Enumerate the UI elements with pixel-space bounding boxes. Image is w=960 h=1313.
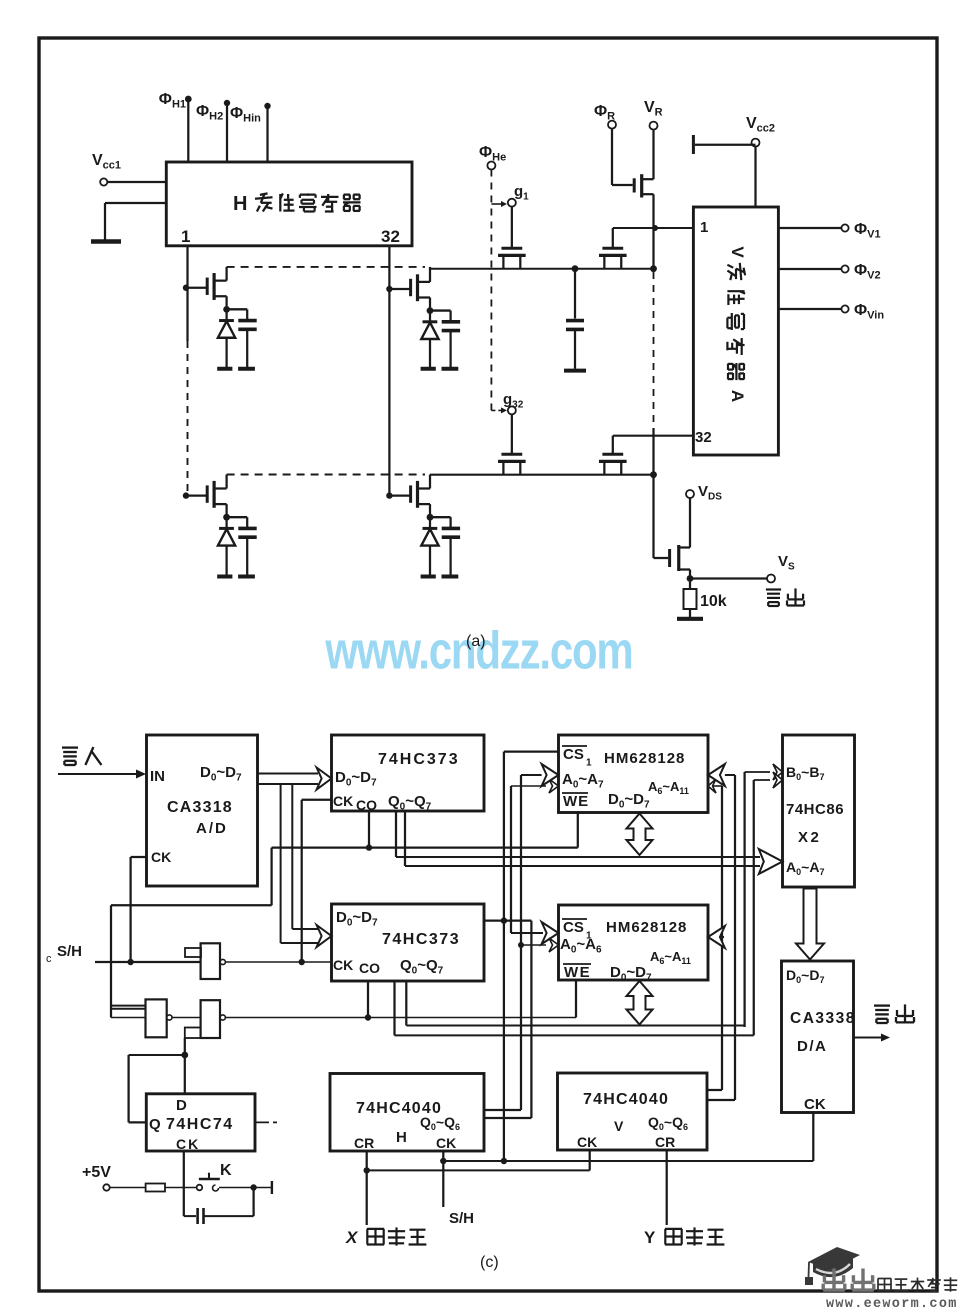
svg-text:+5V: +5V	[82, 1164, 111, 1181]
svg-text:X: X	[345, 1228, 359, 1247]
svg-text:S/H: S/H	[57, 943, 82, 960]
svg-text:CK: CK	[151, 849, 171, 865]
svg-text:CA3318: CA3318	[167, 799, 233, 816]
svg-text:CA3338: CA3338	[790, 1010, 856, 1027]
svg-text:74HC4040: 74HC4040	[583, 1091, 669, 1108]
svg-text:74HC86: 74HC86	[786, 801, 844, 818]
svg-text:CO: CO	[356, 797, 377, 813]
svg-text:A/D: A/D	[196, 820, 228, 837]
svg-text:A0~A6: A0~A6	[560, 936, 602, 955]
svg-text:S/H: S/H	[449, 1210, 474, 1227]
svg-text:A0~A7: A0~A7	[562, 771, 604, 790]
svg-text:D0~D7: D0~D7	[336, 909, 378, 928]
svg-text:CS: CS	[563, 746, 584, 763]
svg-text:CK: CK	[577, 1134, 597, 1150]
svg-text:(a): (a)	[466, 633, 486, 650]
svg-text:CK: CK	[333, 793, 353, 809]
svg-text:A0~A7: A0~A7	[786, 859, 824, 877]
svg-text:1: 1	[586, 757, 592, 768]
svg-text:D0~D7: D0~D7	[335, 769, 377, 788]
svg-text:D0~D7: D0~D7	[610, 964, 652, 983]
svg-text:K: K	[220, 1162, 232, 1179]
svg-text:(c): (c)	[480, 1254, 499, 1271]
svg-text:10k: 10k	[700, 593, 727, 610]
svg-text:1: 1	[181, 227, 190, 246]
svg-text:CK: CK	[176, 1136, 200, 1152]
svg-text:WE: WE	[564, 964, 591, 981]
svg-text:HM628128: HM628128	[604, 750, 685, 767]
svg-text:CK: CK	[804, 1096, 826, 1113]
svg-text:D0~D7: D0~D7	[786, 967, 824, 985]
svg-text:Q0~Q6: Q0~Q6	[648, 1114, 688, 1132]
svg-text:Q0~Q7: Q0~Q7	[388, 793, 432, 812]
svg-text:D0~D7: D0~D7	[608, 791, 650, 810]
svg-text:Q0~Q7: Q0~Q7	[400, 957, 444, 976]
svg-text:c: c	[46, 953, 52, 965]
svg-text:74HC373: 74HC373	[378, 751, 460, 768]
svg-text:www.cndzz.com: www.cndzz.com	[325, 622, 633, 681]
svg-text:HM628128: HM628128	[606, 919, 687, 936]
svg-text:www.eeworm.com: www.eeworm.com	[826, 1297, 958, 1308]
svg-text:32: 32	[381, 227, 400, 246]
svg-text:CS: CS	[563, 919, 584, 936]
svg-text:V: V	[614, 1118, 624, 1134]
svg-text:WE: WE	[563, 793, 589, 810]
svg-text:D: D	[176, 1097, 187, 1114]
svg-text:74HC74: 74HC74	[166, 1116, 234, 1133]
svg-text:Y: Y	[644, 1228, 656, 1247]
svg-text:32: 32	[695, 429, 712, 446]
svg-text:IN: IN	[150, 768, 165, 785]
svg-text:Q: Q	[149, 1116, 161, 1133]
svg-text:CK: CK	[333, 957, 353, 973]
svg-text:H: H	[396, 1129, 407, 1146]
svg-text:CR: CR	[354, 1135, 374, 1151]
svg-text:74HC373: 74HC373	[382, 931, 460, 948]
svg-text:X2: X2	[798, 829, 821, 846]
svg-text:Q0~Q6: Q0~Q6	[420, 1114, 460, 1132]
svg-text:D/A: D/A	[797, 1038, 827, 1055]
svg-text:CK: CK	[436, 1135, 456, 1151]
svg-text:V: V	[728, 246, 747, 258]
svg-text:H: H	[233, 193, 247, 215]
svg-text:A: A	[728, 390, 747, 402]
svg-text:CO: CO	[359, 960, 380, 976]
svg-text:CR: CR	[655, 1134, 675, 1150]
svg-text:1: 1	[700, 219, 708, 236]
svg-text:D0~D7: D0~D7	[200, 764, 242, 783]
svg-text:B0~B7: B0~B7	[786, 764, 824, 782]
